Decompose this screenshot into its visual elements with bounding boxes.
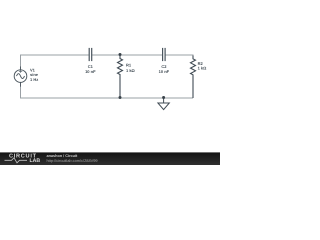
wire: node B, C2 right plate to R2 top <box>166 55 194 58</box>
wire: bottom ground net <box>21 87 194 99</box>
voltage source V1 <box>14 67 27 87</box>
junction dot: ground on bottom net <box>162 96 165 99</box>
svg-text:1 Hz: 1 Hz <box>30 77 38 82</box>
ground symbol <box>158 98 169 110</box>
svg-text:10 nF: 10 nF <box>85 69 96 74</box>
label R1 with value 1 kOhm <box>126 63 136 73</box>
resistor R1 <box>118 55 123 98</box>
label V1 with value sine 1 Hz <box>30 67 39 82</box>
svg-text:1 kΩ: 1 kΩ <box>198 66 208 71</box>
capacitor C1 <box>89 48 93 61</box>
V1 plus polarity mark <box>19 70 22 73</box>
label C2 with value 10 nF <box>159 64 170 74</box>
label C1 with value 10 nF <box>85 64 96 74</box>
wire: node IN, V1 top terminal to C1 left plate <box>21 55 89 67</box>
junction dot: R1 top on node A <box>119 53 122 56</box>
svg-text:1 kΩ: 1 kΩ <box>126 68 136 73</box>
resistor R2 <box>191 56 196 99</box>
label R2 with value 1 kOhm <box>198 61 208 70</box>
wire: node A, C1 right plate to C2 left plate <box>92 54 162 56</box>
capacitor C2 <box>162 48 166 61</box>
watermark bar <box>0 152 220 165</box>
svg-text:R1: R1 <box>126 63 132 68</box>
svg-text:10 nF: 10 nF <box>159 69 170 74</box>
junction dot: R1 bottom on ground net <box>119 96 122 99</box>
svg-text:LAB: LAB <box>30 158 41 164</box>
watermark logo waveform <box>5 158 28 163</box>
svg-text:http://circuitlab.com/c/288V99: http://circuitlab.com/c/288V99 <box>47 158 98 163</box>
